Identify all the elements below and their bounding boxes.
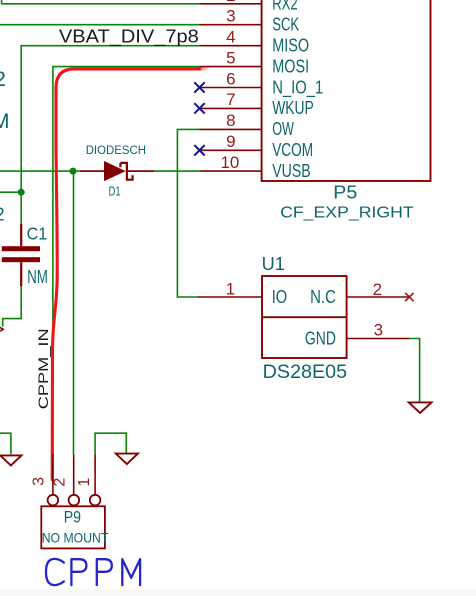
svg-text:6: 6 — [226, 69, 235, 88]
connector P9 box — [41, 506, 105, 548]
svg-text:C1: C1 — [27, 223, 48, 243]
wire pin3 net — [0, 24, 200, 26]
wire P9 pin2 drop from diode node — [73, 171, 75, 454]
svg-text:MISO: MISO — [272, 35, 309, 56]
P5 pin 10 — [200, 170, 262, 172]
thick red CPPM highlight line — [52, 69, 199, 480]
diode D1 anode pin — [80, 170, 104, 172]
svg-text:DS28E05: DS28E05 — [263, 361, 348, 383]
U1 pin 1 IO — [197, 296, 262, 298]
ground symbol right (U1) — [409, 402, 432, 413]
P5 pin 3 — [200, 24, 262, 26]
connector P9 pin1 lead — [94, 455, 96, 495]
U1 pin 3 GND — [347, 338, 410, 340]
svg-text:OW: OW — [272, 118, 294, 139]
junction dot diode node — [70, 168, 77, 175]
U1 pin 2 N.C — [347, 296, 410, 298]
svg-text:RX2: RX2 — [272, 0, 298, 14]
IC U1 box — [262, 276, 347, 358]
note text CPPM — [46, 559, 140, 585]
svg-text:N.C: N.C — [310, 286, 336, 307]
P5 pin 7 — [200, 107, 262, 109]
sheet edge band — [0, 590, 476, 596]
svg-text:9: 9 — [226, 132, 235, 151]
svg-text:2: 2 — [0, 204, 5, 224]
svg-text:2: 2 — [52, 478, 69, 487]
capacitor C1 plate bottom — [2, 257, 40, 262]
wire VUSB pin10 net diode cathode side — [154, 170, 199, 172]
no-connect X pin9 — [194, 145, 204, 155]
svg-text:10: 10 — [220, 153, 239, 172]
connector P9 pin3 lead — [52, 455, 54, 495]
svg-text:U1: U1 — [262, 253, 285, 274]
svg-text:2: 2 — [0, 68, 6, 91]
label CPPM_IN (rotated) — [35, 328, 51, 409]
wire VBAT_DIV_7p8 pin4 net — [21, 46, 199, 193]
U1 pin 2 no-connect X — [405, 293, 413, 301]
P9 pin number 1 (rotated) — [76, 478, 93, 487]
ground symbol left — [0, 455, 21, 465]
svg-text:NO MOUNT: NO MOUNT — [42, 531, 109, 546]
P5 pin 4 — [200, 45, 262, 47]
svg-text:D1: D1 — [109, 184, 121, 199]
svg-text:VCOM: VCOM — [272, 139, 313, 160]
svg-text:8: 8 — [226, 111, 235, 130]
no-connect X pin6 — [194, 82, 204, 92]
wire U1 pin3 to ground — [410, 339, 420, 402]
wire C1 bottom lead to edge pin — [3, 286, 22, 327]
diode D1 body — [104, 161, 126, 181]
P9 pin circle 2 — [69, 495, 80, 506]
thick red line fade tail — [0, 0, 1, 1]
svg-text:VBAT_DIV_7p8: VBAT_DIV_7p8 — [59, 25, 199, 47]
capacitor C1 plate top — [2, 246, 40, 251]
svg-text:M: M — [0, 110, 10, 133]
svg-text:CF_EXP_RIGHT: CF_EXP_RIGHT — [280, 204, 414, 221]
P5 pin 2 — [200, 3, 262, 5]
wire diode anode side — [0, 170, 80, 172]
svg-text:1: 1 — [226, 280, 235, 299]
svg-text:CPPM_IN: CPPM_IN — [35, 328, 51, 409]
svg-text:1: 1 — [76, 478, 93, 487]
P9 pin circle 1 — [90, 495, 101, 506]
wire OW pin8 net to U1 pin1 — [177, 129, 199, 297]
svg-text:DIODESCH: DIODESCH — [86, 143, 146, 157]
svg-text:2: 2 — [373, 280, 382, 299]
P9 pin circle 3 — [48, 495, 59, 506]
svg-text:NM: NM — [27, 267, 48, 287]
connector P9 pin2 lead — [73, 455, 75, 495]
svg-text:MOSI: MOSI — [272, 55, 309, 76]
P5 pin 6 — [200, 87, 262, 89]
connector P5 box — [262, 0, 431, 181]
P9 pin number 2 (rotated) — [52, 478, 69, 487]
svg-text:5: 5 — [226, 48, 235, 67]
svg-text:N_IO_1: N_IO_1 — [272, 76, 323, 98]
svg-text:4: 4 — [226, 28, 235, 47]
svg-text:3: 3 — [374, 321, 383, 340]
wire left stub at y192 — [0, 191, 21, 193]
P5 pin 8 — [200, 128, 262, 130]
wire CPPM pin5 net down to P9 pin3 — [53, 67, 200, 455]
wire VBUS net pin2 — [2, 0, 200, 4]
svg-text:3: 3 — [226, 7, 235, 26]
svg-text:WKUP: WKUP — [272, 97, 314, 118]
U1 divider — [262, 316, 347, 318]
svg-text:VUSB: VUSB — [272, 160, 311, 181]
P9 pin number 3 (rotated) — [31, 477, 48, 486]
no-connect X pin7 — [194, 103, 204, 113]
svg-text:IO: IO — [272, 286, 288, 307]
P5 pin 9 — [200, 149, 262, 151]
diode D1 schottky cathode bar — [120, 163, 132, 180]
svg-text:SCK: SCK — [272, 14, 299, 35]
svg-text:7: 7 — [226, 90, 235, 109]
svg-text:3: 3 — [31, 477, 48, 486]
svg-text:GND: GND — [305, 327, 336, 348]
junction dot C1 node — [18, 189, 25, 196]
capacitor C1 top lead — [20, 224, 22, 246]
capacitor C1 bottom lead — [20, 262, 22, 286]
wire C1 top lead — [20, 192, 22, 225]
wire P9 pin1 to ground — [95, 433, 126, 454]
wire left ground branch — [0, 433, 11, 454]
svg-text:P9: P9 — [64, 509, 81, 527]
diode D1 cathode pin — [128, 170, 154, 172]
ground symbol middle — [116, 454, 138, 465]
edge component pin stub — [0, 328, 3, 332]
svg-text:P5: P5 — [333, 182, 357, 203]
P5 pin 5 — [200, 66, 262, 68]
svg-text:2: 2 — [226, 0, 235, 5]
